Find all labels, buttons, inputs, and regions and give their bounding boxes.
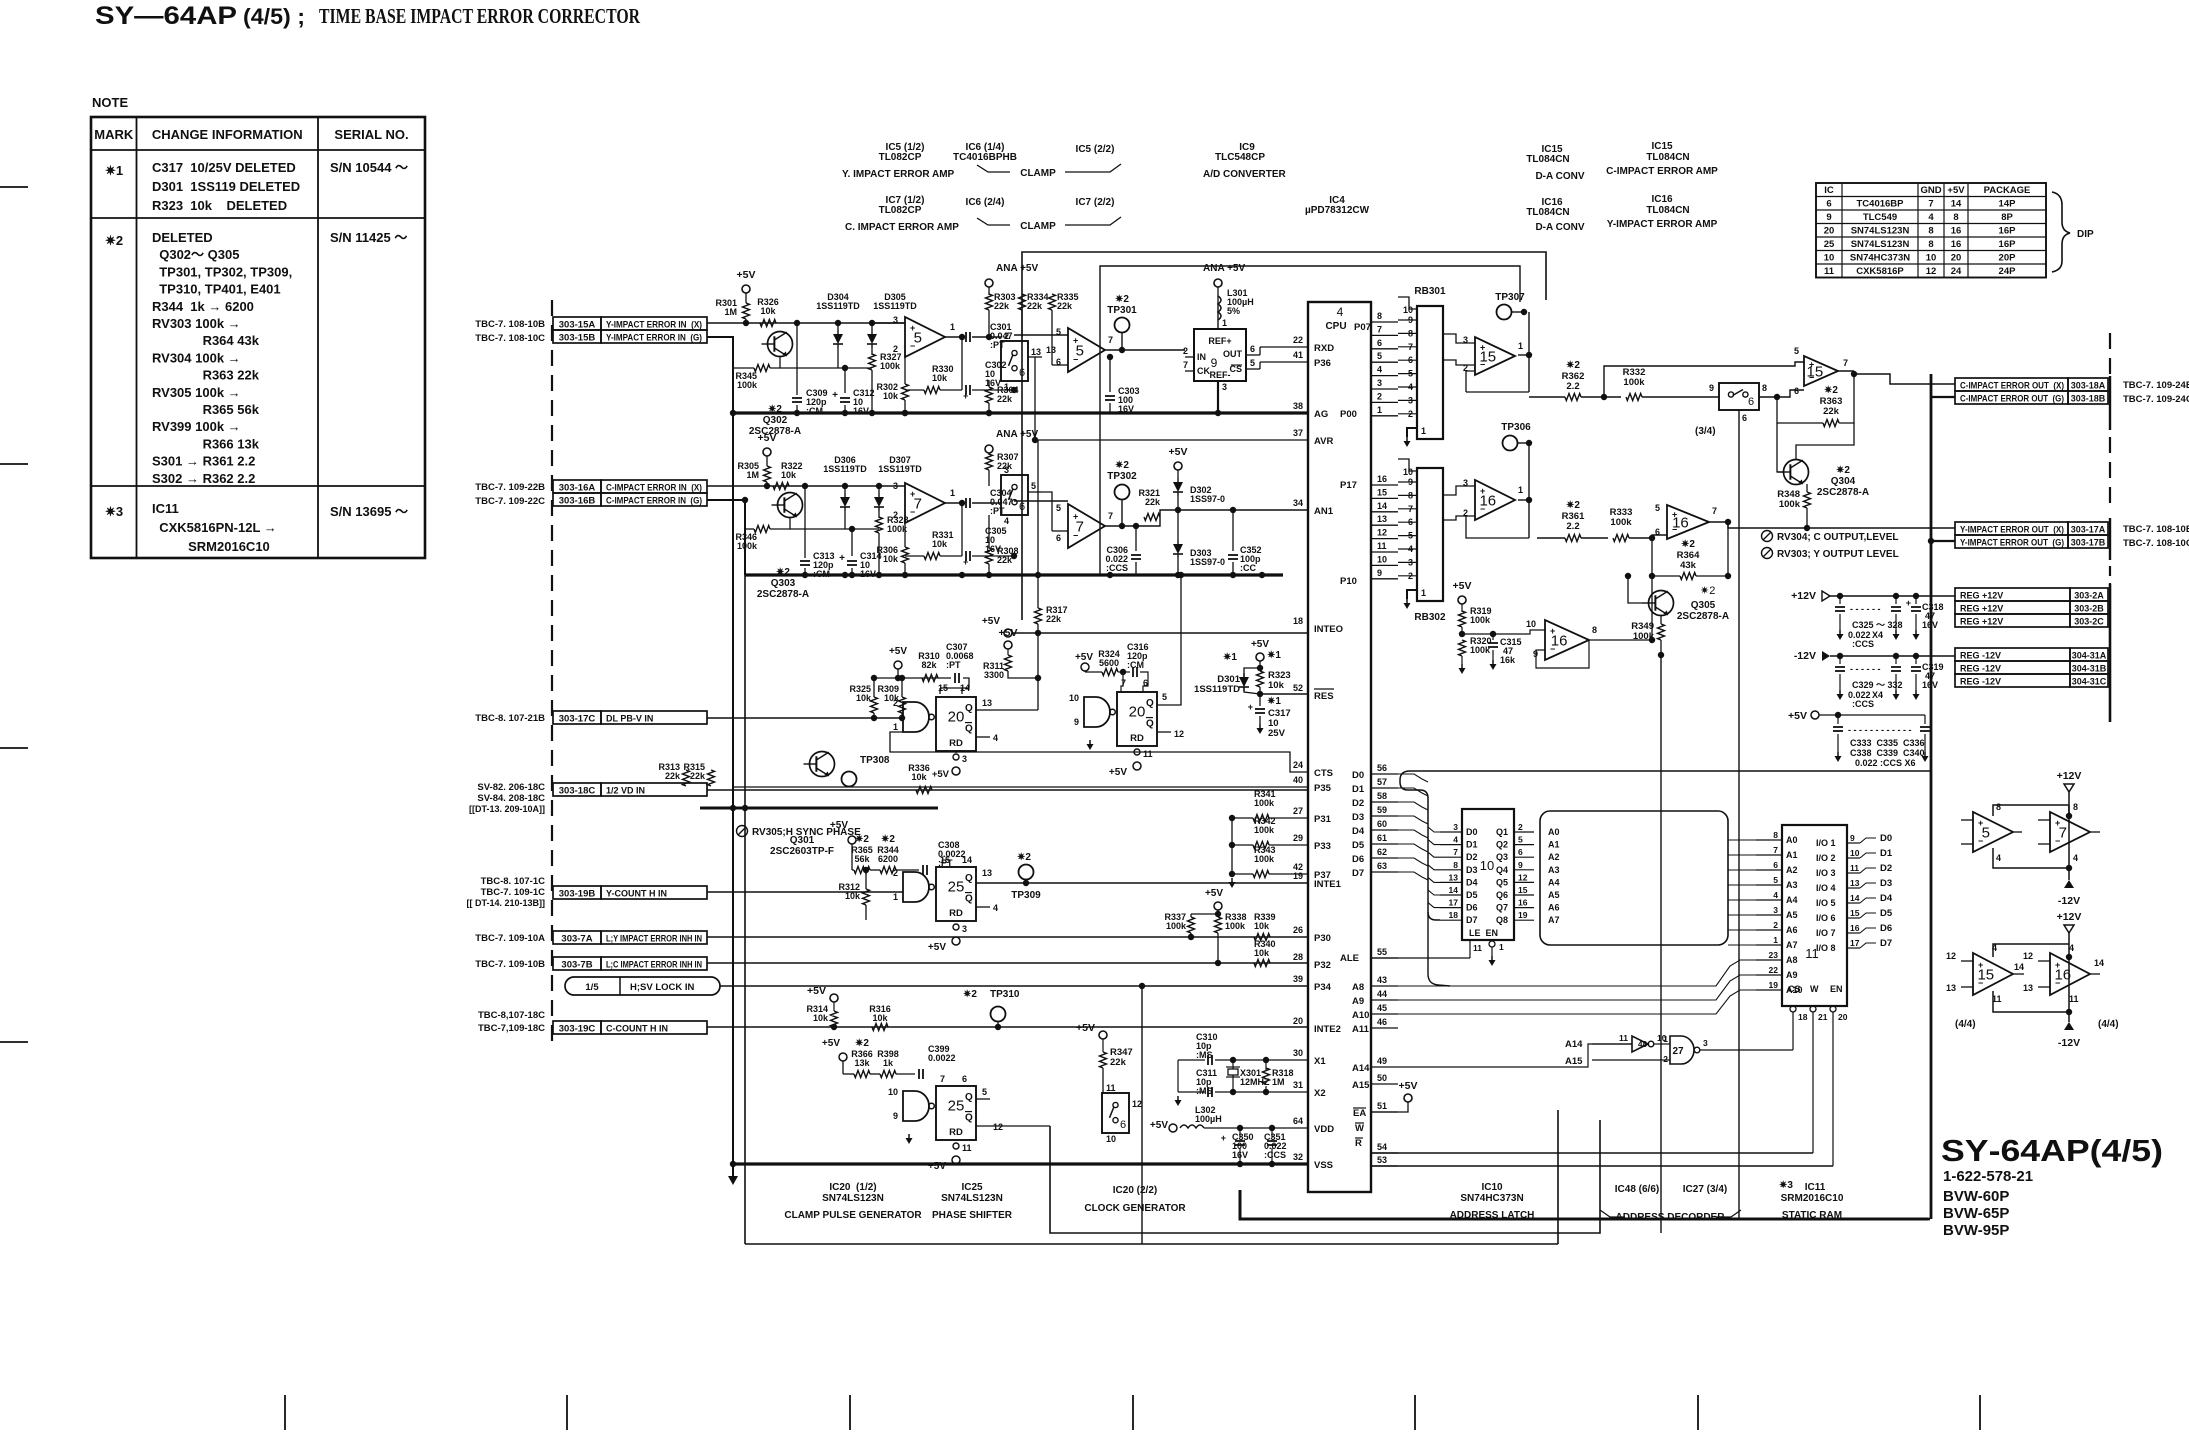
resistors R303 R334 R335 22k: [986, 294, 993, 310]
wire Y-impact error in (G): [707, 337, 733, 413]
right board edge line: [2109, 333, 2111, 376]
svg-text:7: 7: [1108, 511, 1113, 521]
svg-text:A1: A1: [1786, 850, 1798, 860]
svg-text::CC: :CC: [1240, 563, 1256, 573]
svg-text:10: 10: [1106, 1134, 1116, 1144]
svg-text:PACKAGE: PACKAGE: [1984, 185, 2031, 196]
svg-text:SRM2016C10: SRM2016C10: [1781, 1193, 1844, 1204]
svg-text:Y-COUNT H IN: Y-COUNT H IN: [606, 889, 667, 899]
svg-text:50: 50: [1377, 1073, 1387, 1083]
svg-text:16k: 16k: [1500, 655, 1516, 665]
svg-text:CHANGE INFORMATION: CHANGE INFORMATION: [152, 127, 303, 142]
wire to op16 inputs: [1652, 535, 1667, 538]
svg-text:−: −: [910, 341, 915, 351]
svg-text:S/N 13695 〜: S/N 13695 〜: [330, 504, 408, 519]
svg-text:63: 63: [1377, 861, 1387, 871]
svg-text:Y-IMPACT ERROR AMP: Y-IMPACT ERROR AMP: [1607, 219, 1718, 230]
svg-text:C-IMPACT ERROR AMP: C-IMPACT ERROR AMP: [1606, 166, 1718, 177]
svg-text:A14: A14: [1565, 1039, 1583, 1050]
svg-text:3: 3: [1703, 1038, 1708, 1048]
svg-text:12: 12: [1518, 872, 1528, 882]
svg-text:D7: D7: [1352, 868, 1364, 879]
svg-text:3: 3: [1453, 822, 1458, 832]
svg-text:15: 15: [1850, 908, 1860, 918]
svg-text:26: 26: [1293, 925, 1303, 935]
capacitor C318 47 16V: [1915, 596, 1917, 604]
svg-text:8: 8: [1453, 860, 1458, 870]
svg-text:Q: Q: [965, 724, 973, 735]
svg-text:1: 1: [893, 892, 898, 902]
svg-text:10k: 10k: [911, 772, 927, 782]
op-amp IC7 2/2: [1068, 504, 1105, 548]
svg-text:9: 9: [1826, 212, 1831, 223]
svg-text:17: 17: [1449, 898, 1459, 908]
wire Y-COUNT H IN: [707, 891, 903, 893]
op-amp 16 D-A wires RB302: [1443, 486, 1475, 495]
svg-text:(4/4): (4/4): [2098, 1019, 2119, 1030]
svg-text:10k: 10k: [781, 470, 797, 480]
svg-text:1: 1: [1499, 942, 1504, 952]
svg-text:TL084CN: TL084CN: [1526, 154, 1569, 165]
svg-text:6: 6: [1826, 199, 1831, 210]
svg-text:8: 8: [1592, 625, 1597, 635]
svg-text:RV304; C OUTPUT,LEVEL: RV304; C OUTPUT,LEVEL: [1777, 532, 1899, 543]
op-amp 15 D-A wires RB301: [1443, 334, 1475, 343]
svg-text:62: 62: [1377, 847, 1387, 857]
connector REG -12V 304-31A/31B/31C: [1955, 648, 2070, 661]
svg-text:C. IMPACT ERROR AMP: C. IMPACT ERROR AMP: [845, 222, 959, 233]
svg-text:CXK5816PN-12L →: CXK5816PN-12L →: [152, 520, 277, 535]
svg-text:20: 20: [1951, 253, 1962, 264]
svg-text:REG +12V: REG +12V: [1960, 604, 2003, 614]
svg-text:IC25: IC25: [961, 1182, 983, 1193]
C-IMPACT OUT (G) heavy wire: [1931, 396, 1955, 398]
svg-text:1SS119TD: 1SS119TD: [823, 464, 867, 474]
analog switch IC6 4/4 clock: [1102, 1093, 1129, 1133]
svg-text:22k: 22k: [997, 394, 1013, 404]
svg-text:7: 7: [1843, 358, 1848, 368]
svg-text:1SS97-0: 1SS97-0: [1190, 494, 1225, 504]
svg-text:1M: 1M: [724, 307, 737, 317]
svg-text:11: 11: [1106, 1083, 1116, 1093]
svg-text:A3: A3: [1548, 865, 1560, 875]
svg-text:VDD: VDD: [1314, 1124, 1334, 1135]
svg-text:303-2A: 303-2A: [2074, 591, 2104, 601]
svg-text:7: 7: [1928, 199, 1933, 210]
wire C-COUNT H IN to INTE2: [707, 1026, 1308, 1028]
svg-text:1: 1: [893, 722, 898, 732]
svg-text:D6: D6: [1466, 903, 1478, 913]
svg-text::CCS: :CCS: [1106, 563, 1128, 573]
svg-text:PHASE SHIFTER: PHASE SHIFTER: [932, 1210, 1013, 1221]
svg-text:TC4016BPHB: TC4016BPHB: [953, 152, 1017, 163]
svg-text:D7: D7: [1466, 915, 1478, 925]
svg-text:CLAMP: CLAMP: [1020, 221, 1056, 232]
svg-text:ANA +5V: ANA +5V: [996, 263, 1038, 274]
svg-text:A7: A7: [1786, 940, 1798, 950]
op-amp IC15 D-A: [1475, 337, 1515, 375]
svg-text:16: 16: [1518, 898, 1528, 908]
svg-text:13: 13: [982, 698, 992, 708]
svg-text:+: +: [1248, 702, 1253, 712]
svg-text:34: 34: [1293, 498, 1303, 508]
svg-text:R366 13k: R366 13k: [152, 436, 260, 451]
svg-text:25: 25: [948, 1097, 965, 1114]
svg-text:+5V: +5V: [1150, 1120, 1168, 1131]
svg-text:13: 13: [1046, 345, 1056, 355]
EA +5V: [1404, 1094, 1412, 1102]
svg-text:TC4016BP: TC4016BP: [1857, 199, 1905, 210]
svg-text:S302 → R362 2.2: S302 → R362 2.2: [152, 471, 255, 486]
W R wires to RAM: [1371, 1152, 1813, 1154]
svg-text:TP306: TP306: [1501, 422, 1531, 433]
op-amp IC16 D-A: [1475, 480, 1515, 520]
bottom heavy bus y1219: [1240, 1190, 1928, 1219]
svg-text:41: 41: [1293, 350, 1303, 360]
resistor bank R341 R342 R343: [1231, 818, 1233, 874]
svg-text:TL084CN: TL084CN: [1646, 152, 1689, 163]
CPU ALE pin 55: [1371, 957, 1398, 959]
svg-text:ALE: ALE: [1340, 953, 1359, 964]
svg-text:✷2: ✷2: [1115, 460, 1129, 471]
svg-text:58: 58: [1377, 791, 1387, 801]
svg-text:(4/5) ;: (4/5) ;: [243, 4, 305, 29]
svg-text:+12V: +12V: [1791, 590, 1816, 602]
svg-text:25V: 25V: [1268, 728, 1286, 739]
svg-text:16: 16: [1951, 226, 1962, 237]
svg-text:Q6: Q6: [1496, 890, 1508, 900]
svg-text:10: 10: [1526, 619, 1536, 629]
svg-text:2: 2: [1377, 391, 1382, 401]
svg-text:22: 22: [1769, 965, 1779, 975]
svg-text:C333 C335 C336: C333 C335 C336: [1850, 738, 1925, 748]
svg-text:R: R: [1355, 1138, 1362, 1149]
svg-text:4: 4: [1928, 212, 1934, 223]
svg-text:10k: 10k: [1254, 948, 1270, 958]
svg-text:BVW-60P: BVW-60P: [1943, 1188, 2009, 1205]
svg-text:16V: 16V: [1922, 680, 1938, 690]
wire op5b out to TP301 and AD: [1121, 333, 1123, 350]
svg-text:A1: A1: [1548, 840, 1560, 850]
svg-text:I/O 4: I/O 4: [1816, 883, 1836, 893]
heavy line below VD: [700, 807, 938, 810]
svg-text:24: 24: [1293, 760, 1303, 770]
svg-text:8P: 8P: [2001, 212, 2013, 223]
svg-text:+: +: [1906, 598, 1911, 608]
svg-text:IC7 (2/2): IC7 (2/2): [1076, 197, 1115, 208]
svg-text:44: 44: [1377, 989, 1387, 999]
svg-text::CCS: :CCS: [1852, 639, 1874, 649]
svg-text:13: 13: [1377, 514, 1387, 524]
resistor network RB301: [1417, 306, 1443, 439]
IC4 CPU uPD78312CW block: [1308, 302, 1371, 1192]
wire L;C IMPACT ERROR INH IN: [707, 962, 1308, 964]
connector 303-16B C-IMPACT ERROR IN (G): [553, 493, 601, 506]
A8 A9 A10 wires from CPU to RAM: [1398, 960, 1756, 986]
svg-text::PT: :PT: [990, 506, 1005, 516]
svg-text:−: −: [1978, 836, 1983, 846]
svg-text:100k: 100k: [1254, 825, 1275, 835]
svg-text:-12V: -12V: [2058, 1037, 2080, 1049]
connector 303-19B Y-COUNT H IN: [553, 886, 601, 899]
vertical bus x733: [732, 337, 734, 1164]
svg-text:1SS97-0: 1SS97-0: [1190, 557, 1225, 567]
svg-text:4: 4: [2069, 943, 2074, 953]
svg-text:9: 9: [1074, 717, 1079, 727]
svg-text:Y-IMPACT ERROR OUT (G): Y-IMPACT ERROR OUT (G): [1960, 538, 2064, 548]
svg-text:10: 10: [1403, 305, 1413, 315]
svg-text:+5V: +5V: [1205, 888, 1223, 899]
svg-text:27: 27: [1672, 1046, 1684, 1057]
svg-text:P17: P17: [1340, 480, 1357, 491]
svg-text:SV-82. 206-18C: SV-82. 206-18C: [477, 782, 545, 793]
svg-text:7: 7: [1183, 360, 1188, 370]
svg-text:CLAMP: CLAMP: [1020, 168, 1056, 179]
connector pill 1/5 H;SV LOCK IN: [565, 977, 720, 995]
svg-text:4: 4: [1453, 835, 1458, 845]
svg-text:304-31C: 304-31C: [2072, 677, 2107, 687]
svg-text:12: 12: [1174, 729, 1184, 739]
svg-text:R365 56k: R365 56k: [152, 402, 260, 417]
svg-text:24P: 24P: [1999, 266, 2017, 277]
analog switch IC6 1/4 (Y): [1001, 341, 1028, 381]
CPU A8-A11 pins: [1371, 985, 1398, 987]
svg-text:SN74HC373N: SN74HC373N: [1460, 1193, 1523, 1204]
connector 303-17C DL PB-V IN: [553, 711, 601, 724]
clamp brace 1: [977, 165, 1010, 172]
svg-text:+: +: [963, 391, 968, 401]
svg-text:IC5 (2/2): IC5 (2/2): [1076, 144, 1115, 155]
connector 303-18A C-IMPACT ERROR OUT (X): [1955, 378, 2068, 391]
svg-text:TL082CP: TL082CP: [879, 205, 922, 216]
transistor Q304 2SC2878-A: [1784, 460, 1809, 485]
svg-text:P35: P35: [1314, 783, 1332, 794]
svg-text:TBC-7. 109-1C: TBC-7. 109-1C: [481, 887, 546, 898]
connector 303-18C 1/2 VD IN: [553, 783, 601, 796]
svg-text:10: 10: [1850, 848, 1860, 858]
svg-text:Q302〜 Q305: Q302〜 Q305: [152, 247, 239, 262]
svg-text:0.0022: 0.0022: [928, 1053, 956, 1063]
svg-text:Q: Q: [965, 873, 973, 884]
svg-text:100k: 100k: [1779, 499, 1801, 510]
svg-text:45: 45: [1377, 1003, 1387, 1013]
svg-text:13k: 13k: [854, 1058, 870, 1068]
vertical bus x745: [744, 500, 746, 1244]
svg-text:CXK5816P: CXK5816P: [1856, 266, 1904, 277]
svg-text:−: −: [1550, 644, 1555, 654]
svg-text:+5V: +5V: [822, 1038, 840, 1049]
svg-text:22k: 22k: [997, 555, 1013, 565]
R319 R320 C315 ref divider: [1458, 596, 1466, 604]
svg-text:C329 〜 332: C329 〜 332: [1852, 680, 1903, 690]
svg-text:Q303: Q303: [771, 578, 796, 589]
svg-text:4: 4: [1004, 516, 1009, 526]
svg-text:Q: Q: [965, 1092, 973, 1103]
capacitors C329-C332: [1839, 656, 1841, 664]
A/D converter IC9 TLC549 block: [1194, 329, 1246, 381]
svg-text:✷1: ✷1: [1267, 696, 1281, 707]
svg-text:LE: LE: [1469, 928, 1481, 938]
power pins op-amp 15: [1973, 953, 2013, 995]
svg-text:3: 3: [1377, 378, 1382, 388]
svg-text:43k: 43k: [1680, 560, 1697, 571]
svg-text:A/D CONVERTER: A/D CONVERTER: [1203, 169, 1287, 180]
svg-text:303-7B: 303-7B: [561, 960, 592, 971]
svg-text:+: +: [910, 489, 915, 499]
svg-text:4: 4: [1996, 853, 2001, 863]
svg-text:303-16B: 303-16B: [559, 496, 596, 507]
svg-text:9: 9: [1518, 860, 1523, 870]
svg-text:5: 5: [1031, 481, 1036, 491]
svg-text:BVW-95P: BVW-95P: [1943, 1222, 2009, 1239]
connector 303-7B L;C IMPACT ERROR INH IN: [553, 957, 601, 970]
svg-text:14: 14: [1449, 885, 1459, 895]
svg-text:6: 6: [1056, 533, 1061, 543]
svg-text:A7: A7: [1548, 915, 1560, 925]
svg-text:IC20 (1/2): IC20 (1/2): [829, 1182, 876, 1193]
svg-text:+: +: [2055, 960, 2060, 970]
svg-text:SN74LS123N: SN74LS123N: [822, 1193, 884, 1204]
svg-text:A3: A3: [1786, 880, 1798, 890]
svg-text:A6: A6: [1548, 903, 1560, 913]
svg-text:11: 11: [1473, 943, 1482, 953]
svg-text:16: 16: [1951, 239, 1962, 250]
svg-text:Q305: Q305: [1691, 600, 1716, 611]
svg-text:AG: AG: [1314, 409, 1328, 420]
svg-text:14: 14: [1951, 199, 1962, 210]
svg-text:I/O 2: I/O 2: [1816, 853, 1836, 863]
svg-text:7: 7: [1773, 845, 1778, 855]
svg-text:303-19B: 303-19B: [559, 889, 596, 900]
static RAM IC11 block 11: [1782, 825, 1847, 1006]
svg-text:D2: D2: [1466, 852, 1478, 862]
svg-text:2: 2: [1183, 346, 1188, 356]
svg-text:5600: 5600: [1099, 658, 1119, 668]
svg-text:SRM2016C10: SRM2016C10: [152, 539, 270, 554]
resistor R327 100k: [869, 354, 876, 370]
svg-text:A0: A0: [1786, 835, 1798, 845]
svg-text:Q304: Q304: [1831, 476, 1856, 487]
svg-text:18: 18: [1449, 910, 1459, 920]
one-shot IC25 block 25 (phase): [903, 872, 929, 902]
connector 303-15A Y-IMPACT ERROR IN (X): [553, 317, 601, 330]
op-amp 16 out wire: [1709, 521, 1728, 523]
svg-text:IC15: IC15: [1651, 141, 1673, 152]
svg-text:+5V: +5V: [1788, 710, 1807, 722]
resistor R307 22k: [986, 454, 993, 470]
svg-text:11: 11: [962, 1143, 972, 1153]
svg-text:22k: 22k: [994, 301, 1010, 311]
svg-text:RD: RD: [1130, 733, 1144, 744]
svg-text:57: 57: [1377, 777, 1387, 787]
svg-text:303-16A: 303-16A: [559, 483, 596, 494]
svg-text:ANA +5V: ANA +5V: [996, 429, 1038, 440]
svg-text:✷2: ✷2: [105, 233, 123, 248]
svg-text:D2: D2: [1880, 863, 1892, 874]
resistor R323 10k: [1257, 671, 1264, 687]
svg-text:A2: A2: [1786, 865, 1798, 875]
op-amp IC16 REF DC: [1545, 620, 1589, 660]
svg-text:13: 13: [982, 868, 992, 878]
svg-text:C-IMPACT ERROR IN (X): C-IMPACT ERROR IN (X): [606, 483, 702, 493]
svg-text:TBC-7. 108-10C: TBC-7. 108-10C: [2123, 538, 2189, 549]
transistor Q305 2SC2878-A: [1649, 591, 1674, 616]
svg-text:TBC-7. 109-24C: TBC-7. 109-24C: [2123, 394, 2189, 405]
resistor R306 10k: [902, 547, 909, 563]
svg-text:TBC-8. 107-21B: TBC-8. 107-21B: [475, 713, 545, 724]
svg-text:+5V: +5V: [1109, 767, 1127, 778]
wire to op15 plus: [1604, 362, 1804, 397]
svg-text:A8: A8: [1352, 982, 1364, 993]
svg-text:SV-84. 208-18C: SV-84. 208-18C: [477, 793, 545, 804]
connector REG +12V 303-2A/2B/2C: [1955, 588, 2070, 601]
svg-text:12: 12: [1926, 266, 1937, 277]
svg-text:REG +12V: REG +12V: [1960, 617, 2003, 627]
svg-text:10k: 10k: [932, 373, 948, 383]
svg-text:3300: 3300: [984, 670, 1004, 680]
svg-text:8: 8: [1928, 226, 1933, 237]
svg-text:+5V: +5V: [1399, 1080, 1418, 1092]
svg-text:W: W: [1810, 984, 1819, 994]
svg-text:303-15B: 303-15B: [559, 333, 596, 344]
svg-text:100k: 100k: [1254, 854, 1275, 864]
svg-text:TL082CP: TL082CP: [879, 152, 922, 163]
data bus rail and long D0 wire: [1400, 771, 1931, 780]
svg-text:20: 20: [1838, 1012, 1848, 1022]
svg-text:✷2: ✷2: [1115, 294, 1129, 305]
svg-text:1M: 1M: [746, 470, 759, 480]
svg-text:RV304 100k →: RV304 100k →: [152, 350, 241, 365]
svg-text:10: 10: [1926, 253, 1937, 264]
svg-text:1: 1: [1773, 935, 1778, 945]
svg-text:8: 8: [1928, 239, 1933, 250]
svg-text:46: 46: [1377, 1017, 1387, 1027]
svg-text:Q5: Q5: [1496, 877, 1508, 887]
svg-text:10: 10: [1069, 693, 1079, 703]
svg-text:Y-IMPACT ERROR IN (G): Y-IMPACT ERROR IN (G): [606, 333, 702, 343]
svg-text:16V: 16V: [1118, 404, 1134, 414]
svg-text:RV303; Y OUTPUT LEVEL: RV303; Y OUTPUT LEVEL: [1777, 549, 1899, 560]
wire Y-impact error in (X): [707, 322, 905, 324]
svg-text:I/O 3: I/O 3: [1816, 868, 1836, 878]
wire L;Y IMPACT ERROR INH IN: [707, 936, 1308, 938]
svg-text:TL084CN: TL084CN: [1646, 205, 1689, 216]
svg-text:22k: 22k: [665, 771, 681, 781]
svg-text:TP309: TP309: [1011, 890, 1041, 901]
ground arrow: [732, 1164, 734, 1176]
svg-text:P31: P31: [1314, 814, 1332, 825]
svg-text:I/O 7: I/O 7: [1816, 928, 1836, 938]
wires AD to CPU RXD P36: [1259, 347, 1261, 355]
resistor network RB302: [1417, 468, 1443, 601]
svg-text:+: +: [1221, 1133, 1226, 1143]
analog switch IC6 2/4 (C): [1001, 475, 1028, 515]
svg-text:5: 5: [982, 1087, 987, 1097]
svg-text:TLC549: TLC549: [1863, 212, 1897, 223]
svg-text:A4: A4: [1786, 895, 1798, 905]
svg-text:INTE1: INTE1: [1314, 879, 1342, 890]
capacitors C325-C328: [1839, 596, 1841, 604]
svg-text:2: 2: [1773, 920, 1778, 930]
wire INTEO: [1012, 632, 1308, 634]
svg-text:-12V: -12V: [2058, 895, 2080, 907]
svg-text:[[ DT-14. 210-13B]]: [[ DT-14. 210-13B]]: [466, 898, 545, 908]
svg-text:RV303 100k →: RV303 100k →: [152, 316, 241, 331]
wire C-impact error in (G): [707, 500, 745, 575]
svg-text:+: +: [839, 553, 845, 564]
capacitor C319 47 16V: [1915, 656, 1917, 664]
svg-text:A2: A2: [1548, 852, 1560, 862]
